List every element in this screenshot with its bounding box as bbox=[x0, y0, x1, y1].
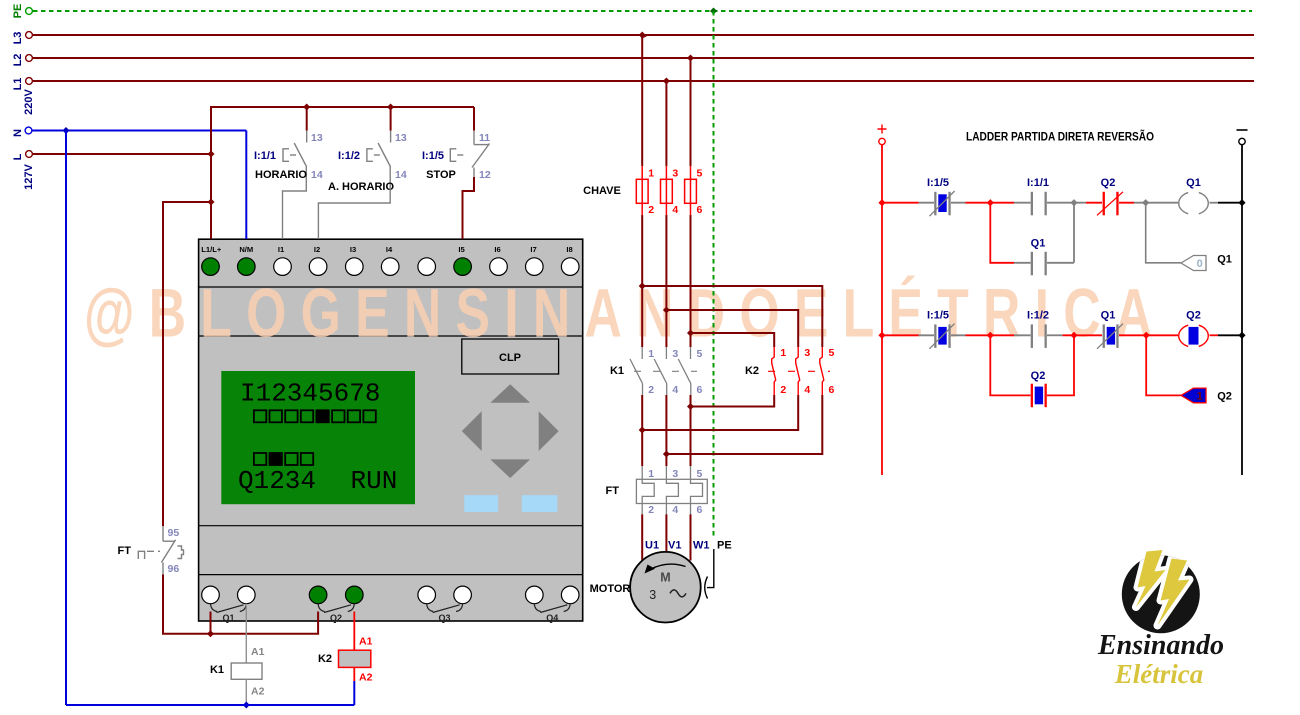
svg-text:13: 13 bbox=[311, 132, 323, 144]
pushbutton I:1/1 HORARIO bbox=[283, 131, 307, 189]
svg-text:N/M: N/M bbox=[239, 245, 253, 254]
svg-text:I7: I7 bbox=[530, 245, 536, 254]
coil K1 bbox=[210, 663, 262, 679]
svg-text:PE: PE bbox=[12, 4, 24, 19]
node L3 tap bbox=[639, 32, 650, 39]
node FT branch junction bbox=[208, 199, 215, 206]
wire Q1a lead bbox=[210, 612, 212, 634]
contact I:1/1 bbox=[1027, 177, 1049, 215]
overload relay FT bbox=[636, 466, 707, 514]
motor M3 bbox=[630, 552, 701, 623]
node L2 tap bbox=[687, 55, 694, 62]
wire phase A upper bbox=[641, 35, 643, 166]
fuse 3-4 bbox=[661, 166, 679, 216]
svg-text:STOP: STOP bbox=[426, 169, 456, 181]
pushbutton I:1/2 A. HORARIO bbox=[367, 131, 391, 189]
svg-text:0: 0 bbox=[1197, 258, 1203, 270]
wire phase B upper bbox=[665, 81, 667, 166]
wire W1 bbox=[690, 514, 692, 560]
svg-text:5: 5 bbox=[697, 348, 703, 360]
svg-text:3: 3 bbox=[672, 168, 678, 180]
node rung1 left bbox=[878, 199, 885, 206]
wire phase C upper bbox=[690, 58, 692, 166]
wire FT to Q terminals bbox=[163, 575, 318, 634]
contact I:1/5 rung1 bbox=[927, 177, 955, 216]
svg-text:@BLOGENSINANDOELÉTRICA: @BLOGENSINANDOELÉTRICA bbox=[84, 274, 1166, 351]
svg-text:I3: I3 bbox=[350, 245, 356, 254]
svg-text:Q1234: Q1234 bbox=[238, 466, 316, 496]
svg-text:I6: I6 bbox=[494, 245, 500, 254]
svg-text:HORARIO: HORARIO bbox=[255, 169, 307, 181]
terminal N/M bbox=[238, 258, 256, 276]
contact Q1 NC rung2 bbox=[1097, 310, 1123, 349]
LCD screen bbox=[221, 371, 415, 504]
wire PE drop bbox=[713, 11, 715, 538]
svg-text:Q1: Q1 bbox=[1031, 238, 1046, 250]
node rung2 output bbox=[1143, 332, 1150, 339]
ladder plus terminal bbox=[878, 125, 887, 145]
svg-text:M: M bbox=[660, 571, 670, 585]
nav arrow left bbox=[462, 411, 482, 451]
contactor K1 pole 1-2 bbox=[630, 347, 643, 395]
node K1 blue junction bbox=[243, 702, 250, 709]
wire I:1/1 to I1 bbox=[283, 189, 307, 240]
relay contact Q4 bbox=[534, 604, 570, 613]
L3 bus bbox=[26, 32, 1254, 39]
svg-text:I12345678: I12345678 bbox=[240, 379, 380, 409]
svg-text:LADDER PARTIDA DIRETA REVERSÃO: LADDER PARTIDA DIRETA REVERSÃO bbox=[966, 131, 1154, 144]
svg-text:3: 3 bbox=[649, 588, 656, 602]
svg-text:Q1: Q1 bbox=[1101, 310, 1116, 322]
svg-text:Q2: Q2 bbox=[330, 613, 342, 623]
svg-text:L1: L1 bbox=[12, 78, 24, 91]
PLC CLP body bbox=[199, 239, 583, 621]
rung2 set branch wire bbox=[1146, 335, 1181, 395]
wire K2 feed 5 bbox=[642, 286, 822, 347]
svg-text:1: 1 bbox=[648, 348, 654, 360]
set tag 1 Q2 bbox=[1181, 388, 1206, 403]
wire Q2a lead bbox=[317, 612, 319, 621]
wire stub I:1/5 bbox=[473, 107, 475, 131]
svg-text:L: L bbox=[12, 153, 24, 160]
node rung2 left bbox=[878, 332, 885, 339]
contactor K2 pole 3-4 bbox=[796, 347, 800, 395]
wire phase B mid bbox=[665, 215, 667, 347]
svg-text:14: 14 bbox=[311, 169, 323, 181]
terminal I3 bbox=[346, 258, 364, 276]
node N drop bbox=[63, 127, 70, 134]
svg-text:Q3: Q3 bbox=[438, 613, 450, 623]
contactor K2 pole 5-6 bbox=[820, 347, 824, 395]
svg-text:I2: I2 bbox=[314, 245, 320, 254]
svg-text:CLP: CLP bbox=[499, 352, 521, 364]
watermark bbox=[84, 274, 1166, 351]
FT pin numbers bbox=[648, 468, 702, 516]
rung1 reset branch wire bbox=[1146, 203, 1181, 263]
contact Q1 seal bbox=[1031, 238, 1047, 276]
node K2 feed C bbox=[687, 330, 694, 337]
svg-text:A1: A1 bbox=[251, 646, 265, 658]
contactor K2 pole 1-2 bbox=[772, 347, 776, 395]
svg-text:1: 1 bbox=[780, 347, 786, 359]
svg-text:220V: 220V bbox=[23, 88, 35, 114]
ladder left rail bbox=[881, 145, 883, 475]
terminal I4 bbox=[381, 258, 399, 276]
svg-text:Q2: Q2 bbox=[1101, 177, 1116, 189]
output terminal Q4a bbox=[526, 586, 544, 604]
svg-text:4: 4 bbox=[672, 204, 678, 216]
fuse 5-6 bbox=[685, 166, 703, 216]
node L junction bbox=[208, 151, 215, 158]
output terminal Q4b bbox=[561, 586, 579, 604]
K2 linkage bbox=[768, 370, 830, 372]
svg-text:2: 2 bbox=[648, 504, 654, 516]
wire K2 feed 1 bbox=[691, 333, 775, 347]
svg-text:14: 14 bbox=[395, 169, 407, 181]
wire stub I:1/1 bbox=[306, 107, 308, 131]
node rung1 branch right bbox=[1070, 199, 1077, 206]
wire K2 red tail bbox=[353, 667, 355, 681]
svg-text:RUN: RUN bbox=[351, 466, 398, 496]
K1 linkage bbox=[634, 370, 697, 372]
svg-text:I:1/5: I:1/5 bbox=[927, 310, 949, 322]
node rung2 right rail bbox=[1238, 332, 1245, 339]
node L1 tap bbox=[663, 78, 670, 85]
svg-text:3: 3 bbox=[672, 348, 678, 360]
nav arrow up bbox=[490, 384, 530, 403]
svg-text:L2: L2 bbox=[12, 54, 24, 67]
contact Q2 seal bbox=[1031, 370, 1047, 407]
wire I:1/5 to I5 bbox=[463, 177, 475, 239]
node rung1 right rail bbox=[1238, 199, 1245, 206]
L bus bbox=[26, 151, 211, 158]
svg-text:13: 13 bbox=[395, 132, 407, 144]
wire Q2b to K2 bbox=[353, 612, 355, 651]
svg-text:96: 96 bbox=[168, 563, 180, 575]
L1 bus bbox=[26, 78, 1254, 85]
svg-text:4: 4 bbox=[672, 384, 678, 396]
L2 bus bbox=[26, 55, 1254, 62]
svg-text:I:1/5: I:1/5 bbox=[927, 177, 949, 189]
svg-text:I1: I1 bbox=[278, 245, 285, 254]
svg-text:PE: PE bbox=[717, 540, 732, 552]
svg-text:127V: 127V bbox=[23, 163, 35, 189]
CLP nameplate bbox=[462, 339, 559, 374]
reset tag 0 Q1 bbox=[1181, 256, 1206, 271]
wire left blue vertical bbox=[65, 131, 67, 706]
relay contact Q1 bbox=[211, 604, 247, 613]
wire N to N/M terminal bbox=[245, 131, 247, 240]
nav arrow down bbox=[490, 459, 530, 478]
wire K2 feed 3 bbox=[666, 310, 798, 347]
svg-text:2: 2 bbox=[648, 384, 654, 396]
svg-text:3: 3 bbox=[672, 468, 678, 480]
svg-text:2: 2 bbox=[780, 384, 786, 396]
wire U1 bbox=[641, 514, 643, 560]
contact Q2 NC rung1 bbox=[1097, 177, 1123, 215]
svg-text:I5: I5 bbox=[458, 245, 465, 254]
wire K2-2 return bbox=[691, 395, 775, 407]
wire K2-6 return bbox=[666, 395, 822, 454]
svg-text:U1: U1 bbox=[645, 540, 659, 552]
svg-text:Q2: Q2 bbox=[1031, 370, 1046, 382]
svg-text:4: 4 bbox=[672, 504, 678, 516]
svg-text:I8: I8 bbox=[566, 245, 572, 254]
relay contact Q2 bbox=[318, 604, 354, 613]
coil Q2 bbox=[1179, 325, 1209, 346]
terminal I1 bbox=[274, 258, 292, 276]
contactor K1 pole 5-6 bbox=[678, 347, 691, 395]
svg-text:4: 4 bbox=[804, 384, 810, 396]
svg-text:FT: FT bbox=[606, 485, 620, 497]
output terminal Q1b bbox=[238, 586, 256, 604]
node K2 feed B bbox=[663, 307, 670, 314]
output terminal Q3a bbox=[418, 586, 436, 604]
terminal I7 bbox=[526, 258, 544, 276]
blue key left bbox=[464, 495, 498, 512]
wire stub I:1/2 bbox=[390, 107, 392, 131]
rung2 seal branch wires bbox=[990, 335, 1074, 395]
svg-text:Q1: Q1 bbox=[222, 613, 234, 623]
node rung1 branch left bbox=[987, 199, 994, 206]
svg-text:I4: I4 bbox=[386, 245, 393, 254]
svg-text:A2: A2 bbox=[359, 672, 373, 684]
svg-text:I:1/2: I:1/2 bbox=[1027, 310, 1049, 322]
svg-text:95: 95 bbox=[168, 527, 180, 539]
node rung2 branch left bbox=[987, 332, 994, 339]
node K2 feed A bbox=[639, 283, 646, 290]
node Q1a junction bbox=[207, 630, 214, 637]
blue key right bbox=[522, 495, 558, 512]
node I1/1 tap bbox=[303, 104, 310, 111]
wire PE to motor frame bbox=[705, 549, 714, 599]
pushbutton I:1/5 STOP bbox=[450, 131, 489, 177]
wire control feeder 220V bbox=[211, 107, 474, 239]
svg-text:6: 6 bbox=[697, 204, 703, 216]
svg-text:Elétrica: Elétrica bbox=[1114, 659, 1204, 689]
svg-text:CHAVE: CHAVE bbox=[583, 185, 621, 197]
terminal I5 bbox=[454, 258, 472, 276]
coil Q1 bbox=[1179, 193, 1209, 214]
wire to FT column bbox=[163, 202, 211, 526]
wire blue bottom bus bbox=[66, 704, 354, 706]
coil K2 bbox=[318, 650, 371, 667]
wire phase A mid bbox=[641, 215, 643, 347]
svg-text:K2: K2 bbox=[745, 365, 759, 377]
terminal L1/L+ bbox=[202, 258, 220, 276]
svg-text:L1/L+: L1/L+ bbox=[201, 245, 222, 254]
svg-text:1: 1 bbox=[648, 468, 654, 480]
K1 pin numbers bbox=[648, 348, 702, 396]
svg-text:5: 5 bbox=[829, 347, 835, 359]
svg-text:11: 11 bbox=[479, 132, 490, 144]
nav arrow right bbox=[539, 411, 559, 451]
node I1/2 tap bbox=[387, 104, 394, 111]
rung1 seal branch wires bbox=[990, 203, 1074, 263]
svg-text:3: 3 bbox=[804, 347, 810, 359]
svg-text:Q2: Q2 bbox=[1186, 310, 1201, 322]
svg-text:K1: K1 bbox=[210, 664, 224, 676]
screen input state boxes bbox=[254, 410, 376, 422]
relay contact Q3 bbox=[427, 604, 463, 613]
wire I:1/2 to I2 bbox=[318, 189, 390, 240]
wire V1 bbox=[665, 514, 667, 552]
contactor K1 pole 3-4 bbox=[654, 347, 667, 395]
ladder minus terminal bbox=[1237, 130, 1248, 145]
svg-text:12: 12 bbox=[479, 169, 491, 181]
svg-text:Ensinando: Ensinando bbox=[1097, 630, 1224, 661]
svg-text:6: 6 bbox=[697, 384, 703, 396]
svg-text:5: 5 bbox=[697, 468, 703, 480]
svg-text:A. HORARIO: A. HORARIO bbox=[328, 181, 394, 193]
svg-text:I:1/5: I:1/5 bbox=[422, 150, 444, 162]
svg-text:MOTOR: MOTOR bbox=[590, 583, 631, 595]
svg-text:I:1/2: I:1/2 bbox=[338, 150, 360, 162]
wire phase A to FT bbox=[641, 395, 643, 466]
N bus bbox=[25, 127, 246, 134]
terminal I2 bbox=[309, 258, 327, 276]
logo Ensinando Eletrica bbox=[1097, 550, 1224, 689]
svg-text:FT: FT bbox=[118, 545, 132, 557]
PLC input terminal labels bbox=[201, 245, 572, 254]
svg-text:V1: V1 bbox=[668, 540, 681, 552]
svg-text:2: 2 bbox=[648, 204, 654, 216]
contact I:1/2 bbox=[1027, 310, 1049, 348]
node K2-4 join bbox=[639, 427, 646, 434]
screen output state boxes bbox=[254, 453, 313, 465]
ladder right rail bbox=[1241, 145, 1243, 475]
output terminal Q3b bbox=[454, 586, 472, 604]
overload contact FT 95-96 bbox=[138, 526, 183, 575]
svg-text:Q4: Q4 bbox=[546, 613, 558, 623]
K2 pin numbers bbox=[780, 347, 834, 396]
svg-text:6: 6 bbox=[829, 384, 835, 396]
svg-text:W1: W1 bbox=[693, 540, 710, 552]
svg-text:1: 1 bbox=[648, 168, 654, 180]
svg-text:6: 6 bbox=[697, 504, 703, 516]
output terminal Q2a bbox=[309, 586, 327, 604]
wire phase B to FT bbox=[665, 395, 667, 466]
svg-text:I:1/1: I:1/1 bbox=[1027, 177, 1049, 189]
node rung2 branch right bbox=[1070, 332, 1077, 339]
wire Q1b to K1 bbox=[245, 604, 247, 663]
node rung1 output bbox=[1142, 199, 1149, 206]
svg-text:A2: A2 bbox=[251, 686, 265, 698]
terminal I8 bbox=[561, 258, 579, 276]
node PE tap bbox=[710, 8, 717, 15]
wire K1 to blue bus bbox=[245, 679, 247, 705]
svg-text:5: 5 bbox=[697, 168, 703, 180]
svg-text:Q1: Q1 bbox=[1217, 254, 1232, 266]
terminal I6 bbox=[490, 258, 508, 276]
svg-text:Q1: Q1 bbox=[1186, 177, 1201, 189]
svg-text:N: N bbox=[12, 129, 24, 137]
PE bus bbox=[26, 8, 1252, 15]
wire K2-4 return bbox=[642, 395, 798, 430]
wire phase C to FT bbox=[690, 395, 692, 466]
svg-text:A1: A1 bbox=[359, 636, 373, 648]
svg-text:L3: L3 bbox=[12, 32, 24, 45]
svg-text:Q2: Q2 bbox=[1217, 390, 1232, 402]
fuse 1-2 bbox=[636, 166, 654, 216]
svg-text:I:1/1: I:1/1 bbox=[254, 150, 276, 162]
svg-text:K1: K1 bbox=[610, 365, 624, 377]
output terminal Q2b bbox=[346, 586, 364, 604]
output terminal Q1a bbox=[202, 586, 220, 604]
rung2 wire segments bbox=[882, 334, 1242, 336]
svg-text:1: 1 bbox=[1197, 391, 1203, 403]
svg-text:K2: K2 bbox=[318, 653, 332, 665]
node K2-6 join bbox=[663, 451, 670, 458]
terminal spare bbox=[418, 258, 436, 276]
wire phase C mid bbox=[690, 215, 692, 347]
contact I:1/5 rung2 bbox=[927, 310, 955, 349]
wire K2 to blue bus bbox=[353, 681, 355, 705]
node K2-2 join bbox=[687, 403, 694, 410]
rung1 wire segments bbox=[882, 202, 1242, 204]
